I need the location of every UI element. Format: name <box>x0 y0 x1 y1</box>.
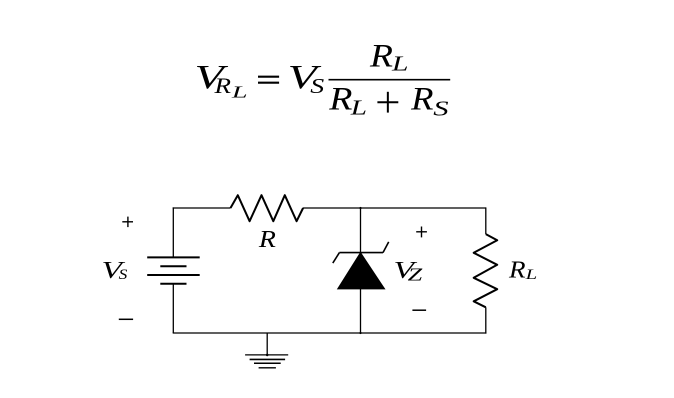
label VZ <box>394 257 423 284</box>
wire ground stub <box>266 333 268 355</box>
svg-text:L: L <box>350 96 367 119</box>
svg-text:L: L <box>231 83 248 102</box>
svg-text:R: R <box>508 256 526 283</box>
svg-text:S: S <box>310 75 324 98</box>
svg-text:R: R <box>213 74 231 98</box>
resistor R <box>231 195 304 221</box>
svg-text:R: R <box>410 80 433 117</box>
battery VS <box>147 257 200 283</box>
svg-text:L: L <box>391 52 409 76</box>
wire top right segment <box>303 207 486 209</box>
label minus battery <box>119 318 133 320</box>
formula V_RL = V_S RL/(RL+RS) <box>195 37 451 121</box>
label VS <box>102 257 128 284</box>
ground <box>245 354 288 368</box>
wire right vertical upper <box>485 207 487 234</box>
label minus zener <box>412 309 426 311</box>
wire right vertical lower <box>485 307 487 333</box>
wire middle vertical upper <box>360 208 362 253</box>
zener diode VZ <box>333 242 389 289</box>
label plus battery <box>122 217 133 228</box>
wire left vertical lower <box>172 284 174 333</box>
label RL <box>508 256 537 283</box>
node top junction <box>359 207 361 209</box>
svg-text:R: R <box>369 37 393 74</box>
svg-text:Z: Z <box>408 265 423 285</box>
wire top left segment <box>173 207 231 209</box>
wire middle vertical lower <box>360 289 362 333</box>
svg-text:L: L <box>524 266 537 282</box>
svg-text:S: S <box>119 267 128 282</box>
svg-text:R: R <box>328 80 353 117</box>
svg-text:R: R <box>258 226 276 253</box>
wire left vertical upper <box>172 207 174 257</box>
node bottom junction <box>359 332 361 334</box>
resistor RL <box>474 234 498 307</box>
wire bottom <box>173 332 487 334</box>
svg-text:S: S <box>433 97 448 120</box>
label plus zener <box>416 227 427 238</box>
